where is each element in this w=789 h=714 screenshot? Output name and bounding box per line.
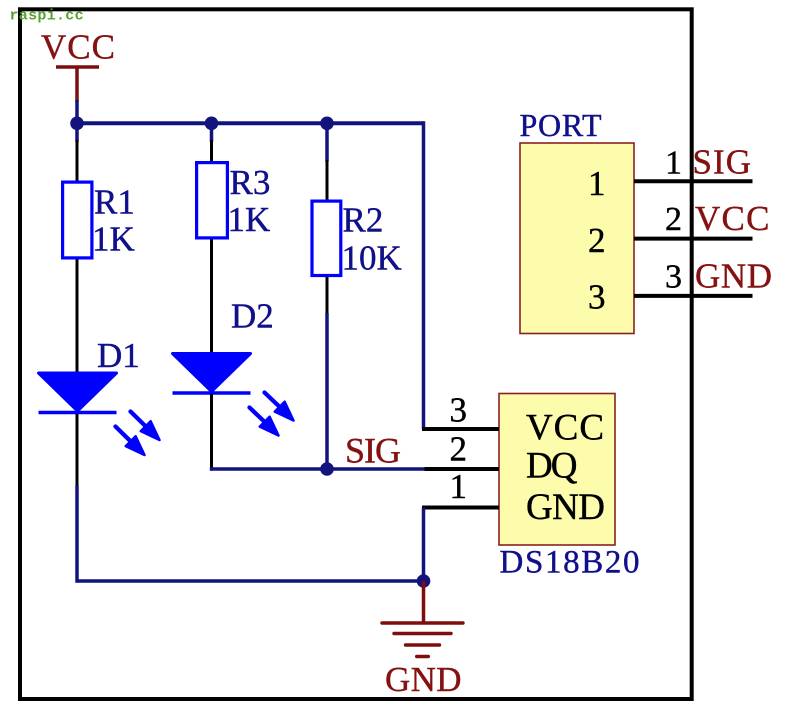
svg-text:1: 1: [665, 145, 682, 182]
svg-text:D1: D1: [97, 336, 140, 375]
svg-text:3: 3: [665, 259, 682, 296]
svg-text:1: 1: [450, 467, 468, 506]
svg-text:VCC: VCC: [526, 408, 604, 449]
svg-text:SIG: SIG: [693, 143, 752, 182]
svg-text:DS18B20: DS18B20: [500, 545, 640, 581]
svg-text:3: 3: [588, 278, 606, 317]
svg-text:DQ: DQ: [526, 446, 578, 487]
svg-text:VCC: VCC: [41, 28, 115, 67]
svg-text:R1: R1: [94, 183, 135, 222]
svg-text:1K: 1K: [228, 200, 271, 239]
svg-text:GND: GND: [695, 257, 772, 296]
svg-text:raspi.cc: raspi.cc: [10, 8, 84, 25]
svg-text:D2: D2: [231, 297, 274, 336]
svg-text:VCC: VCC: [695, 199, 770, 238]
svg-text:GND: GND: [526, 487, 605, 528]
svg-text:1: 1: [588, 164, 606, 203]
svg-text:1K: 1K: [92, 220, 135, 259]
svg-text:2: 2: [665, 201, 682, 238]
svg-text:2: 2: [450, 430, 468, 469]
svg-text:R2: R2: [343, 201, 384, 240]
svg-text:R3: R3: [230, 163, 271, 202]
svg-text:GND: GND: [385, 660, 462, 699]
svg-text:SIG: SIG: [345, 431, 401, 471]
svg-text:10K: 10K: [342, 239, 402, 278]
svg-text:3: 3: [450, 391, 468, 430]
svg-text:2: 2: [588, 221, 606, 260]
svg-text:PORT: PORT: [520, 107, 602, 143]
